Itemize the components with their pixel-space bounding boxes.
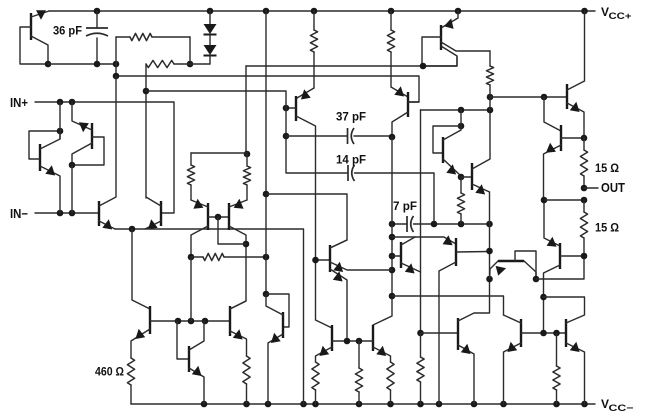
wire VCC+ rail [49,10,595,12]
wire emitter bus [115,229,304,404]
node x490 res dots [487,94,494,101]
transistor Q16 base wire [177,321,189,359]
node y333 dots [540,330,547,337]
wire y296 line [392,296,504,315]
transistor Q3 base wire [72,137,104,165]
transistor Q14 emitter 1 [330,262,392,270]
svg-text:CC+: CC+ [609,11,633,22]
node x490 dots [486,248,493,255]
transistor Q30 bar [440,25,442,50]
transistor Q1 base wire [20,27,48,64]
wire second stage bias y66 [246,57,457,66]
transistor Q2 base wire [29,131,60,159]
node Q10 cb node [458,107,465,114]
wire x266 drop [265,11,267,294]
transistor Q7 emitter [229,200,247,207]
transistor Q12 emitter [401,263,421,272]
wire y237 emitter line [392,237,456,244]
node VCC+ rail junction dots [94,8,101,15]
transistor Q11 collector [472,110,490,169]
transistor Q20 emitter [373,347,391,362]
resistor R11 [243,356,250,384]
node Q25 collector node [540,294,547,301]
node IN+ dots [57,99,64,106]
transistor Q11 bar [471,163,473,190]
transistor Q13 base wire [456,251,490,254]
node Q24 cb node [533,276,540,283]
svg-text:15 Ω: 15 Ω [595,161,619,175]
node Q7 base-collector tie [243,241,250,248]
capacitor C3 14pF [347,165,349,181]
transistor Q21 collector [458,192,490,321]
node VCC- rail junction dots [201,401,208,408]
node x421 bottom [417,330,424,337]
transistor Q9 bar [407,92,409,117]
wire tail drop [132,229,150,309]
transistor Q10 base box [433,126,461,153]
wire bias line y76 [116,76,419,102]
wire IN- lead [35,212,99,214]
transistor Q4 bar [98,201,100,226]
node Q6 collector node [188,254,195,261]
node Q30 cb node [420,63,427,70]
svg-text:15 Ω: 15 Ω [595,221,619,235]
resistor R9 [457,193,464,214]
svg-text:CC−: CC− [609,403,635,414]
transistor Q6 bar [207,203,209,230]
transistor Q9 emitter [391,87,408,97]
node Q25 base node [581,253,588,260]
svg-text:IN+: IN+ [10,96,28,110]
transistor Q28 collector [504,315,522,323]
node Q6Q7 base junction [215,214,222,221]
resistor R13 [387,362,394,390]
wire R3 feed [191,152,247,154]
wire y97 line [490,96,567,98]
transistor Q18 collector [266,294,283,315]
transistor Q5 collector [146,197,161,206]
resistor R12 [312,362,319,390]
transistor Q10 bar [442,137,444,163]
transistor Q16 emitter [189,368,204,404]
resistor R3 [190,153,192,165]
node C1 bottom [94,61,101,68]
transistor Q2 bar [39,144,41,171]
transistor Q5 emitter [145,221,161,229]
transistor Q13 bar [455,238,457,266]
node IN- dots [57,210,64,217]
node R5 right [263,254,270,261]
transistor Q28 emitter [504,343,522,404]
node Q2 cb junction [57,128,64,135]
resistor R7 [387,30,394,52]
transistor Q1 emitter [31,11,49,17]
wire y194 link [266,194,347,248]
transistor Q24 base box [515,251,536,279]
transistor Q21 emitter [458,345,474,404]
resistor R6 [310,30,317,52]
transistor Q5 bar [160,201,162,226]
transistor Q27 emitter [544,145,562,200]
transistor Q8 collector [296,116,332,328]
svg-text:37 pF: 37 pF [336,110,366,124]
transistor Q27 bar [560,125,562,151]
resistor R1 [116,36,130,38]
wire R1 right drop [189,37,191,64]
wire Q10 node link [460,110,462,126]
transistor Q17 collector [230,301,246,309]
svg-text:7 pF: 7 pF [393,199,417,213]
resistor R19 [553,366,560,390]
diode D2 [209,36,211,45]
transistor Q14 base wire [316,259,331,261]
transistor Q10 emitter [443,159,461,176]
transistor Q18 bar [282,312,284,338]
transistor Q3 bar [91,123,93,149]
transistor Q12 bar [400,242,402,268]
wire y200 line [544,199,584,201]
wire R5 left [191,256,203,258]
resistor R17 15ohm [580,150,587,176]
transistor Q19 emitter [316,347,333,362]
transistor Q6 collector [191,226,208,257]
transistor Q1 bar [30,13,32,40]
transistor Q2 collector [40,131,60,149]
transistor Q8 bar [295,96,297,121]
resistor R14 [355,368,362,392]
transistor Q15 base wire [150,320,230,322]
wire OUT stub [584,187,598,189]
transistor Q30 collector 2 [423,46,457,66]
transistor Q11 emitter [472,184,490,192]
transistor Q3 emitter [72,102,92,130]
transistor Q20 bar [372,325,374,351]
transistor Q4 collector [99,76,116,206]
transistor Q8 base wire [286,107,296,109]
node x266 y194 [263,191,270,198]
transistor Q28 base wire [521,332,566,334]
transistor Q29 emitter [566,343,585,404]
wire node A to cap [48,63,116,65]
node Q14 base [312,257,319,264]
svg-text:14 pF: 14 pF [336,153,366,167]
transistor Q12 base wire [392,255,401,257]
wire y110 bias line [421,109,491,111]
wire Q19Q20 base line [332,340,373,342]
svg-text:OUT: OUT [601,181,625,195]
transistor Q29 bar [565,319,567,347]
transistor Q14 collector [330,240,347,248]
transistor Q25 base wire [560,255,584,257]
transistor Q6 emitter [191,200,208,207]
transistor Q18 emitter [268,334,283,404]
resistor R8 [417,357,424,382]
transistor Q8 emitter [297,88,314,98]
transistor Q25 bar [559,243,561,269]
node x392 dots [389,234,396,241]
transistor Q26 bar [566,84,568,109]
wire Q6 collector link [190,257,192,321]
transistor Q11 base wire [461,176,472,178]
transistor Q24 emitter [490,261,498,279]
wire R2 left drop [145,64,147,198]
wire y333 base line left [421,332,459,334]
transistor Q3 collector [72,143,92,165]
node y76 start [113,73,120,80]
transistor Q17 emitter [230,331,247,356]
transistor Q24 bar [498,260,524,262]
node OUT [581,185,588,192]
resistor R4 [246,154,248,166]
node y200 right [581,197,588,204]
wire bias drop x246 [245,66,247,154]
wire y279 [536,256,584,279]
node Q3 cb junction [69,162,76,169]
transistor Q17 bar [229,306,231,336]
node C2 right [389,134,396,141]
node Q8 base [283,105,290,112]
node R1-R2 junction [187,61,194,68]
transistor Q6 base wire [208,216,229,218]
node x266 y294 [263,291,270,298]
transistor Q27 collector [561,137,584,139]
transistor Q30 base wire [422,37,441,66]
transistor Q1 collector [31,36,48,64]
transistor Q26 collector [567,11,585,90]
wire Q8 base column [286,103,347,173]
node Q8 base lower [283,133,290,140]
node y97 mid [541,94,548,101]
transistor Q25 emitter [544,200,560,246]
node R2 tap [143,88,150,95]
node base dots [344,338,351,345]
node R3R4 feed [244,151,251,158]
transistor Q4 emitter [99,221,115,229]
node Q27 collector node [581,135,588,142]
transistor Q28 bar [520,319,522,347]
transistor Q16 collector [189,321,204,350]
resistor R16 [486,66,493,85]
svg-text:36 pF: 36 pF [53,24,82,38]
diode D1 [209,11,211,24]
transistor Q27 base wire [544,97,561,131]
transistor Q30 collector 1 [441,42,490,51]
transistor Q2 emitter [40,166,60,213]
capacitor C1 36pF [96,11,98,28]
capacitor C4 7pF [392,223,407,225]
transistor Q7 collector [229,226,246,309]
wire bias line y91 [146,91,286,103]
node base line dots [175,318,182,325]
resistor R18 15ohm [580,212,587,238]
wire x421 drop [420,110,422,333]
node emitter bus tail [129,226,136,233]
wire IN+ lead [35,102,174,213]
wire node A vertical [115,37,117,76]
transistor Q26 emitter [567,103,584,138]
transistor Q25 collector [544,265,561,333]
wire Q2 top [59,102,61,139]
transistor Q19 bar [331,325,333,351]
transistor Q13 collector [439,262,456,404]
resistor R10 460 [127,358,134,385]
transistor Q30 emitter [441,11,458,28]
transistor Q14 emitter 2 [330,269,347,341]
wire y294 box [266,294,289,327]
wire VCC- rail [131,403,595,405]
transistor Q24 collector [524,261,536,279]
capacitor C2 37pF [286,135,347,137]
transistor Q10 collector [443,126,461,140]
wire x490 link [489,97,491,110]
node A dot1 [113,61,120,68]
transistor Q15 bar [149,306,151,334]
transistor Q15 emitter [131,329,150,358]
resistor R2 [146,60,174,67]
svg-text:IN−: IN− [10,207,28,221]
transistor Q16 bar [188,346,190,372]
node C4 line dots [389,221,396,228]
svg-text:460 Ω: 460 Ω [95,365,124,379]
transistor Q29 collector [544,297,585,323]
resistor R5 [203,253,224,260]
transistor Q14 bar [329,245,331,272]
transistor Q9 collector [392,112,408,137]
wire x392 column [373,137,392,325]
transistor Q9 base wire [408,101,419,103]
node Q27 emitter node [541,197,548,204]
transistor Q21 bar [457,318,459,350]
wire base to collector jog [218,217,246,244]
transistor Q7 bar [228,203,230,230]
node Q1 collector-base junction [45,61,52,68]
wire Q3 bottom [71,165,73,213]
node Q10 emitter node [458,174,465,181]
transistor Q12 collector [401,237,415,245]
